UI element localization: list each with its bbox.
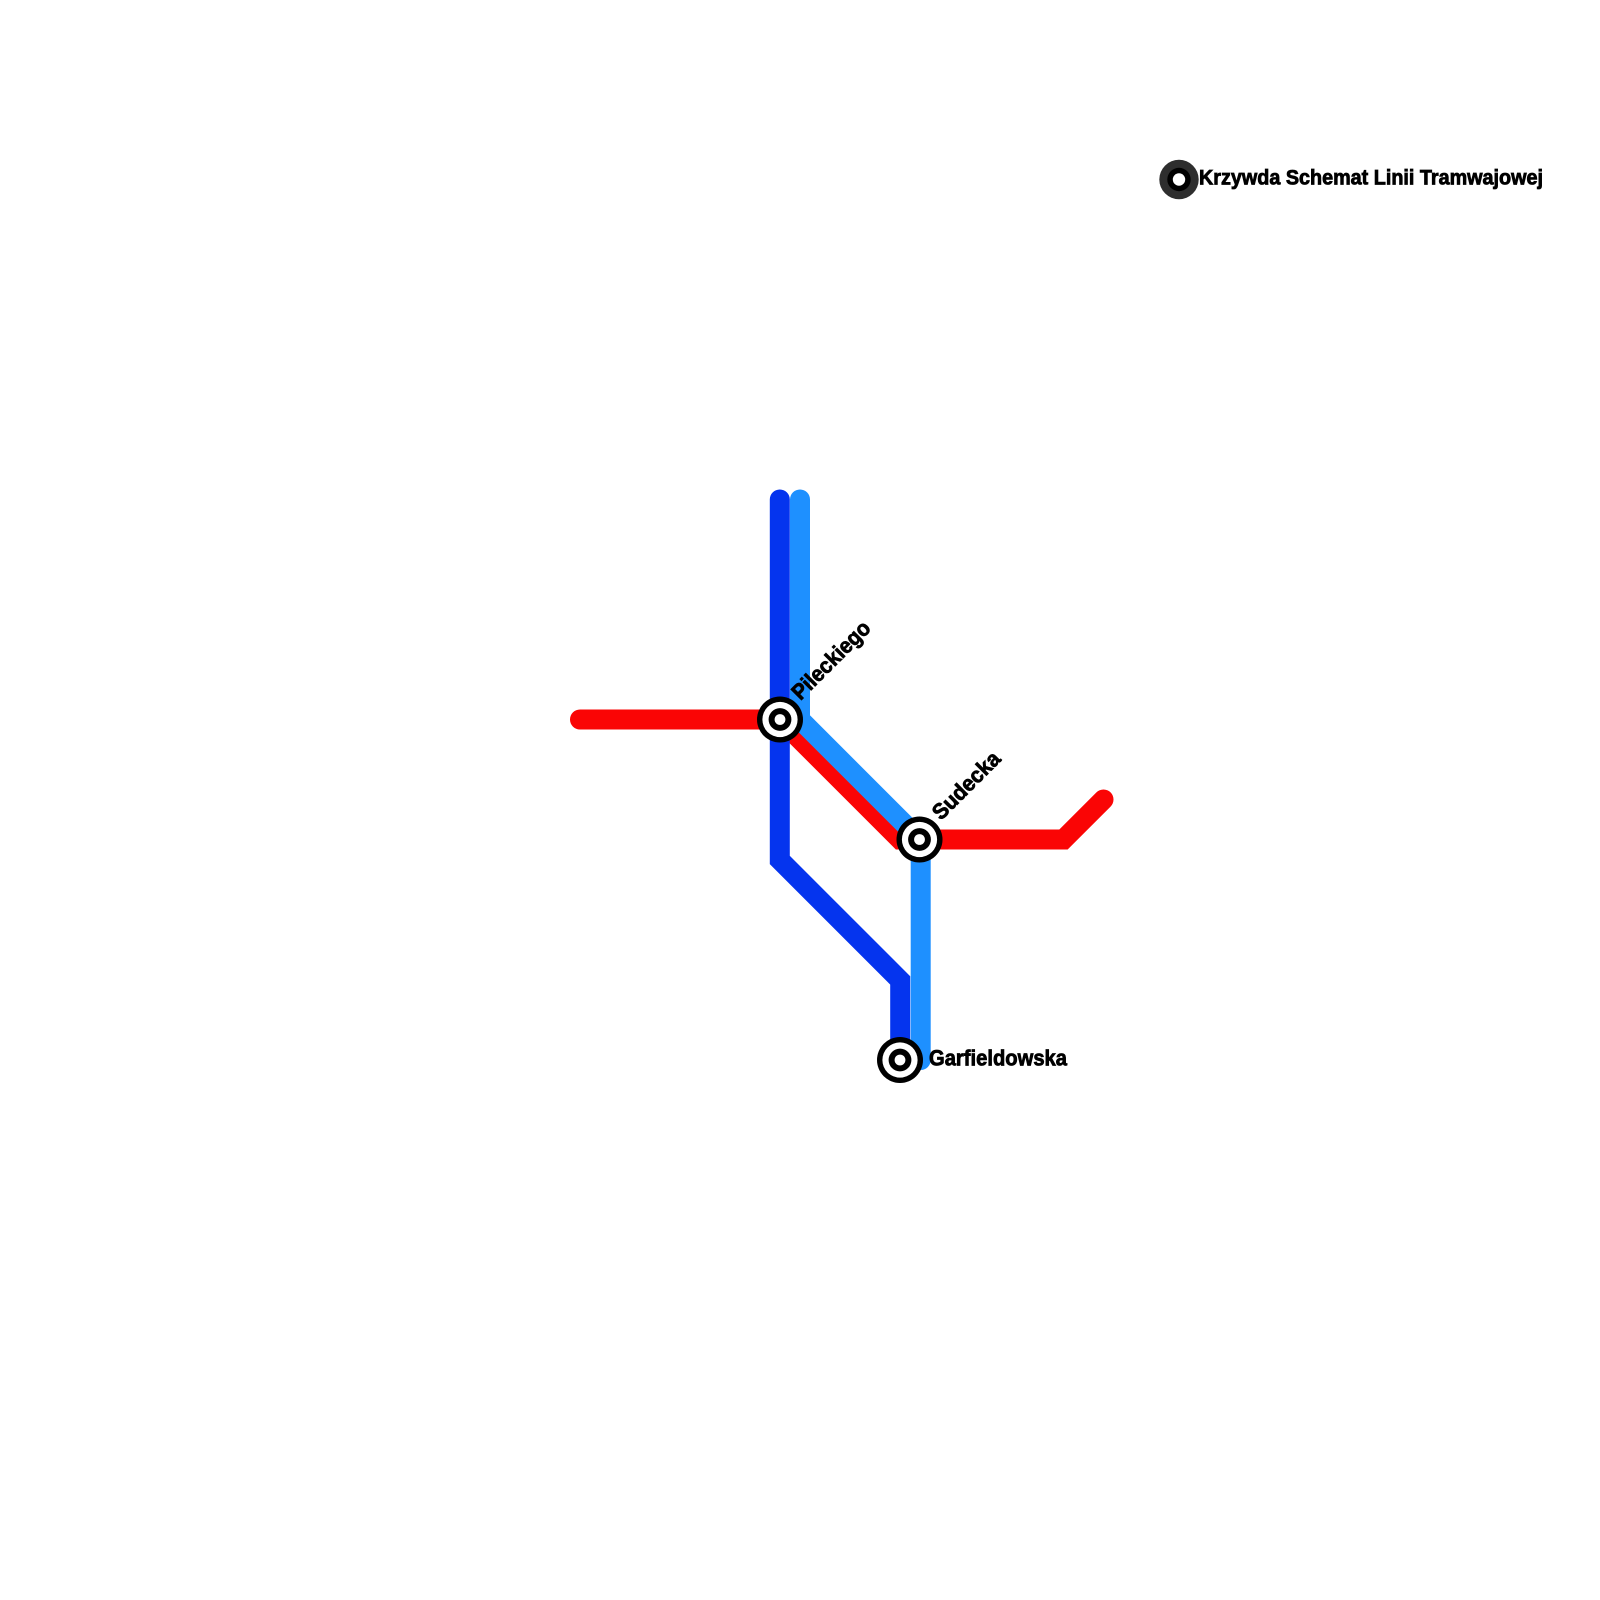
wire red tram line <box>580 720 1104 840</box>
node Pileckiego station <box>757 697 803 743</box>
legend icon <box>1159 160 1198 199</box>
svg-text:Krzywda Schemat Linii Tramwajo: Krzywda Schemat Linii Tramwajowej <box>1199 167 1543 190</box>
wire dark blue tram line <box>780 500 900 1061</box>
node Garfieldowska station <box>877 1037 923 1083</box>
wire light blue tram line <box>800 500 921 1061</box>
svg-text:Garfieldowska: Garfieldowska <box>929 1046 1068 1071</box>
node Sudecka station <box>897 817 943 863</box>
